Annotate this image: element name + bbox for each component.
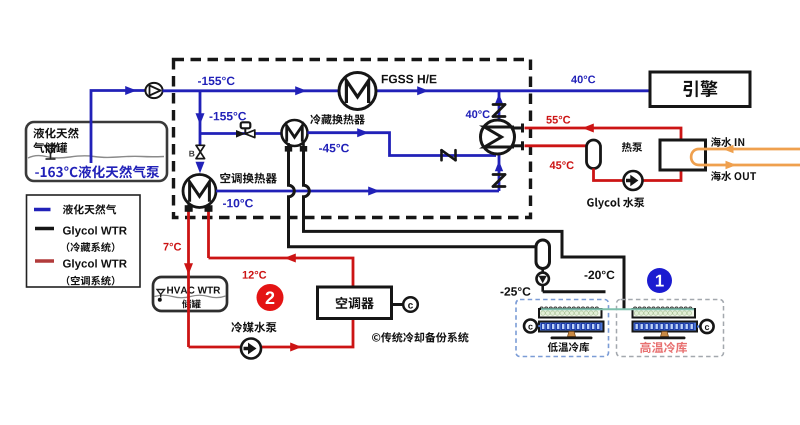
compressor symbol c (AC unit) bbox=[403, 297, 418, 312]
label 空调换热器 bbox=[220, 173, 277, 184]
FGSS system boundary (dashed box) bbox=[174, 60, 531, 218]
label 12°C bbox=[243, 271, 267, 279]
expansion valve bbox=[537, 269, 549, 292]
wire: glycol tank to pump to heat pump bbox=[594, 169, 682, 181]
freezer room box (低温冷库) bbox=[516, 300, 609, 357]
bellows symbol N1 bbox=[442, 150, 456, 160]
wire: AC return riser bbox=[209, 210, 354, 287]
chiller room box (高温冷库) bbox=[617, 300, 724, 357]
flow arrow sea water out bbox=[726, 161, 737, 169]
wire: AC HX glycol line to heat-pump HX bbox=[216, 190, 499, 193]
label 冷媒水泵 bbox=[231, 322, 276, 333]
engine box 引擎 bbox=[650, 72, 750, 107]
port stubs AC HX bbox=[185, 204, 213, 212]
wire: -155°C main line to FGSS H/E bbox=[163, 89, 340, 92]
label -20°C bbox=[585, 271, 615, 280]
compressor link to AC unit bbox=[392, 303, 404, 306]
label 高温冷库 bbox=[640, 342, 687, 353]
flow arrow after refrigeration HX bbox=[357, 128, 369, 137]
freezer fan coil bbox=[539, 322, 604, 332]
label -45°C bbox=[319, 144, 349, 153]
wire: AC supply bottom run bbox=[189, 319, 354, 348]
freezer coil pedestal bbox=[551, 332, 593, 340]
wire: 55°C line to heat pump bbox=[525, 128, 682, 140]
wire: -25°C line to freezer bbox=[543, 290, 606, 293]
HVAC WTR tank bbox=[153, 277, 227, 311]
label 45°C bbox=[550, 161, 574, 169]
chiller fan coil bbox=[633, 322, 698, 332]
wire: tank riser to pump bbox=[91, 91, 145, 164]
badge 2 (red) bbox=[257, 284, 284, 311]
heat exchanger 冷藏换热器 (refrigeration HX) bbox=[282, 120, 308, 146]
chiller coil pedestal bbox=[644, 332, 686, 340]
label 海水 IN bbox=[711, 137, 744, 147]
valve V1 (motor valve on refrigeration branch) bbox=[236, 122, 255, 137]
flow arrow on AC glycol line bbox=[368, 187, 380, 196]
heat pump box bbox=[660, 140, 706, 170]
LNG pump label -163°C bbox=[35, 165, 159, 178]
legend box bbox=[27, 195, 141, 287]
wire: refrigeration supply (inner) bbox=[304, 151, 625, 309]
legend glycol cold line sample bbox=[35, 227, 54, 231]
wire: sea water loop bbox=[691, 149, 800, 165]
wire: -155°C branch drop bbox=[199, 92, 202, 146]
label -155°C (main) bbox=[198, 77, 235, 86]
LNG storage tank bbox=[26, 122, 167, 181]
wire: refrigeration HX to heat-pump HX bbox=[308, 133, 497, 156]
LNG tank level indicator bbox=[45, 146, 57, 160]
legend LNG text bbox=[63, 204, 116, 214]
label -10°C bbox=[223, 199, 253, 208]
bellows symbol Z2 bbox=[493, 175, 505, 187]
label -155°C (branch) bbox=[210, 112, 247, 121]
flow arrow into HVAC tank bbox=[184, 263, 193, 275]
glycol expansion tank bbox=[587, 140, 601, 169]
legend LNG line sample bbox=[34, 208, 51, 211]
heat exchanger U1 (glycol/heat-pump HX) bbox=[481, 120, 515, 154]
heat exchanger 空调换热器 (AC HX) bbox=[183, 175, 216, 208]
pump P1 (LNG pump) bbox=[145, 83, 162, 98]
pump P2 (Glycol pump) bbox=[624, 171, 643, 190]
LNG tank label bbox=[33, 128, 79, 153]
wire: AC supply 7°C through HVAC tank bbox=[187, 210, 190, 347]
label Glycol 水泵 bbox=[587, 197, 644, 209]
pump P3 (chilled water pump) bbox=[241, 339, 261, 359]
flow arrow up into heat-pump HX bbox=[495, 161, 503, 171]
valve V2 (hand valve on AC branch) bbox=[189, 145, 204, 158]
flow arrow on 55°C line bbox=[582, 124, 594, 133]
compressor symbol c (chiller) bbox=[697, 320, 714, 333]
HVAC tank level indicator bbox=[157, 290, 165, 302]
legend glycol cold text bbox=[63, 226, 127, 237]
label ©传统冷却备份系统 bbox=[372, 332, 468, 342]
flow arrow down on branch bbox=[196, 113, 205, 125]
legend glycol ac subtext bbox=[67, 276, 115, 286]
flow arrow on AC supply bbox=[290, 343, 302, 352]
label 7°C bbox=[164, 243, 182, 251]
label 海水 OUT bbox=[711, 171, 756, 181]
flow arrow sea water in bbox=[723, 145, 734, 153]
legend glycol ac line sample bbox=[35, 259, 54, 263]
flow arrow on AC return bbox=[284, 254, 296, 263]
wire: heat-pump HX top to 40°C line bbox=[498, 92, 501, 120]
wire: coil interconnect (brine line) bbox=[541, 308, 694, 310]
label 引擎 bbox=[683, 80, 717, 97]
label 40°C (heat-pump HX) bbox=[466, 110, 490, 118]
label 55°C bbox=[546, 116, 570, 124]
legend glycol cold subtext bbox=[67, 242, 115, 252]
chiller evaporator coil bbox=[633, 307, 696, 318]
bellows symbol Z1 bbox=[493, 105, 505, 117]
freezer evaporator coil bbox=[539, 307, 602, 318]
label 热泵 bbox=[622, 142, 642, 152]
label 40°C (engine line) bbox=[571, 76, 595, 84]
flow arrow on main line bbox=[295, 86, 307, 95]
label 储罐 bbox=[182, 299, 201, 308]
label 冷藏换热器 bbox=[310, 114, 365, 124]
flow arrow up to 40°C line bbox=[495, 94, 503, 104]
label 低温冷库 bbox=[548, 342, 589, 352]
legend glycol ac text bbox=[63, 259, 127, 270]
compressor symbol c (freezer) bbox=[524, 320, 540, 333]
port stub upper (to 55°C line) bbox=[513, 124, 523, 133]
wire: riser into heat-pump HX bottom bbox=[498, 154, 501, 191]
badge 1 (blue) bbox=[647, 268, 672, 293]
flow arrow on 40°C line bbox=[417, 86, 429, 95]
heat exchanger FGSS H/E bbox=[339, 73, 376, 110]
wire: refrigeration return (outer) bbox=[289, 151, 537, 247]
label 空调器 bbox=[336, 297, 374, 309]
wire: branch to refrigeration HX bbox=[200, 132, 282, 135]
label FGSS H/E bbox=[382, 75, 437, 84]
label HVAC WTR bbox=[167, 287, 220, 294]
wire: 40°C line FGSS to engine bbox=[376, 89, 651, 92]
port stub lower (to 45°C line) bbox=[513, 141, 523, 150]
flow arrow into AC heat exchanger bbox=[196, 162, 205, 174]
port stubs refrigeration HX bbox=[285, 143, 307, 152]
flow arrow on tank line bbox=[125, 86, 137, 95]
label -25°C bbox=[501, 287, 531, 296]
wire: 45°C line to glycol tank bbox=[525, 144, 588, 147]
refrigerant receiver tank bbox=[536, 240, 550, 269]
AC unit box 空调器 bbox=[318, 287, 392, 319]
